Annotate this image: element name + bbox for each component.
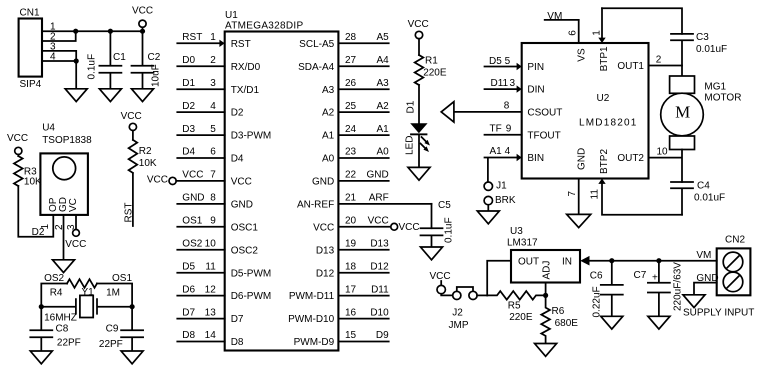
wire C4 to BTP2 pin 11 xyxy=(602,183,682,215)
svg-text:SDA-A4: SDA-A4 xyxy=(298,62,335,73)
svg-text:18: 18 xyxy=(345,261,357,272)
U1 pin 25 (A2) xyxy=(322,101,389,119)
capacitor C1 0.1uF xyxy=(87,31,127,89)
arrowhead BTP1 xyxy=(598,38,605,43)
svg-text:+: + xyxy=(652,272,658,283)
U1 pin 13 (D7) xyxy=(177,307,244,325)
wire GND pin 7 xyxy=(578,179,580,215)
svg-text:TF: TF xyxy=(490,123,502,134)
svg-text:A5: A5 xyxy=(376,32,389,43)
svg-text:D1: D1 xyxy=(182,78,195,89)
svg-text:D3: D3 xyxy=(182,124,195,135)
svg-text:VCC: VCC xyxy=(408,19,429,30)
svg-text:U3: U3 xyxy=(510,226,523,237)
ground C6 xyxy=(601,316,623,329)
IC U2 LMD18201 xyxy=(522,43,649,179)
U1 pin 15 (PWM-D9) xyxy=(294,330,389,348)
capacitor C4 0.01uF xyxy=(671,181,725,215)
wire CN1 pin1 to VCC net xyxy=(42,30,143,32)
capacitor C9 22PF xyxy=(99,324,143,351)
wire CN2 GND to ground xyxy=(694,283,717,295)
svg-text:RX/D0: RX/D0 xyxy=(231,62,261,73)
svg-text:D7: D7 xyxy=(231,314,244,325)
svg-text:M: M xyxy=(675,103,690,122)
svg-text:VCC: VCC xyxy=(65,239,86,250)
svg-text:C4: C4 xyxy=(697,181,710,192)
svg-text:LM317: LM317 xyxy=(507,238,538,249)
node GND (CN2) xyxy=(696,273,718,284)
U1 pin 11 (D5-PWM) xyxy=(177,261,271,279)
U1 pin 21 (AN-REF) xyxy=(297,193,432,211)
svg-text:8: 8 xyxy=(210,193,216,204)
junction pin1/pin2 xyxy=(73,29,78,34)
U1 pin 1 (RST) xyxy=(177,32,250,50)
wire IN to CN2 (VM rail) xyxy=(589,260,717,262)
svg-text:GD: GD xyxy=(58,197,69,212)
wire OUT2 pin 10 xyxy=(649,150,683,183)
svg-text:0.1uF: 0.1uF xyxy=(87,54,98,80)
node VM (U2 VS) xyxy=(545,11,579,22)
U1 pin 7 (VCC) xyxy=(147,170,252,188)
node VM (CN2) xyxy=(696,250,711,261)
svg-text:VCC: VCC xyxy=(231,177,252,188)
svg-text:D5: D5 xyxy=(182,261,195,272)
svg-text:C1: C1 xyxy=(113,52,126,63)
svg-text:J1: J1 xyxy=(496,181,507,192)
ground C1 xyxy=(99,89,121,102)
junction crystal right xyxy=(130,304,135,309)
power VCC (R2 top) xyxy=(121,111,142,140)
svg-text:16: 16 xyxy=(345,307,357,318)
capacitor C6 0.22uF xyxy=(590,261,623,318)
svg-text:7: 7 xyxy=(210,170,216,181)
svg-text:7: 7 xyxy=(567,191,578,197)
svg-text:GND: GND xyxy=(231,200,253,211)
svg-text:U1: U1 xyxy=(225,10,238,21)
svg-text:VCC: VCC xyxy=(313,222,334,233)
svg-text:0.22uF: 0.22uF xyxy=(591,286,602,317)
wire BTP1 top to C3 xyxy=(602,8,682,34)
resistor R4 1M xyxy=(50,279,120,299)
svg-text:D13: D13 xyxy=(316,245,335,256)
node D5 (U2 pin 5) xyxy=(489,56,511,67)
U1 pin 18 (D12) xyxy=(316,261,389,279)
U1 pin 27 (SDA-A4) xyxy=(298,55,389,73)
wire BTP1 pin 1 riser xyxy=(601,8,603,38)
wire CN1 pin4 to ground xyxy=(42,61,76,89)
svg-text:8: 8 xyxy=(504,101,510,112)
ground C9 xyxy=(121,351,143,364)
ground U4 xyxy=(53,260,75,273)
svg-text:R4: R4 xyxy=(50,288,63,299)
svg-text:D8: D8 xyxy=(182,330,195,341)
svg-text:25: 25 xyxy=(345,101,357,112)
ground D1 xyxy=(408,167,430,180)
svg-text:C2: C2 xyxy=(148,52,161,63)
svg-text:RST: RST xyxy=(124,203,135,223)
svg-text:R1: R1 xyxy=(425,56,438,67)
svg-text:OS2: OS2 xyxy=(182,239,202,250)
svg-text:VC: VC xyxy=(68,198,79,212)
svg-text:PIN: PIN xyxy=(527,62,544,73)
svg-text:TX/D1: TX/D1 xyxy=(231,85,260,96)
svg-text:OS2: OS2 xyxy=(44,273,64,284)
wire R2 to RST net xyxy=(132,173,134,226)
svg-text:VCC: VCC xyxy=(132,6,153,17)
svg-text:GND: GND xyxy=(312,177,334,188)
svg-text:0.01uF: 0.01uF xyxy=(694,193,725,204)
svg-text:PWM-D11: PWM-D11 xyxy=(289,291,335,302)
U1 pin 23 (A0) xyxy=(322,147,389,165)
svg-text:A2: A2 xyxy=(322,108,335,119)
svg-text:1: 1 xyxy=(210,32,216,43)
regulator U3 LM317 xyxy=(507,226,580,283)
svg-text:RST: RST xyxy=(182,32,202,43)
resistor R3 10K xyxy=(14,156,42,187)
svg-text:0.01uF: 0.01uF xyxy=(696,44,727,55)
svg-text:D0: D0 xyxy=(182,55,195,66)
svg-text:OUT2: OUT2 xyxy=(617,153,644,164)
svg-text:A2: A2 xyxy=(376,101,389,112)
U1 pin 22 (GND) xyxy=(312,170,389,188)
svg-text:GND: GND xyxy=(182,193,204,204)
svg-text:D11: D11 xyxy=(491,78,509,89)
svg-text:AN-REF: AN-REF xyxy=(297,200,334,211)
IC U1 ATMEGA328DIP xyxy=(225,10,339,351)
svg-text:15: 15 xyxy=(345,330,357,341)
svg-text:220E: 220E xyxy=(423,68,447,79)
svg-text:D13: D13 xyxy=(370,239,389,250)
svg-text:R2: R2 xyxy=(139,146,152,157)
junction C6 tap xyxy=(609,258,614,263)
svg-text:BTP1: BTP1 xyxy=(599,46,610,71)
wire CN1 pin3 xyxy=(42,51,76,61)
arrowhead BTP2 xyxy=(598,179,605,184)
svg-text:VCC: VCC xyxy=(399,222,420,233)
svg-text:ARF: ARF xyxy=(369,193,389,204)
svg-text:5: 5 xyxy=(210,124,216,135)
svg-text:OSC1: OSC1 xyxy=(231,222,259,233)
svg-text:6: 6 xyxy=(210,147,216,158)
U1 pin 2 (RX/D0) xyxy=(177,55,260,73)
connector CN2 xyxy=(717,235,751,296)
wire D5 to PIN xyxy=(485,66,517,68)
svg-text:OS1: OS1 xyxy=(182,216,202,227)
wire CN1 pin2 riser xyxy=(42,31,76,41)
svg-text:CSOUT: CSOUT xyxy=(527,108,562,119)
svg-text:10K: 10K xyxy=(139,158,157,169)
junction pin3/pin4 xyxy=(74,58,79,63)
svg-text:21: 21 xyxy=(345,193,357,204)
svg-text:GND: GND xyxy=(576,148,587,170)
wire TF to TFOUT xyxy=(485,134,522,136)
svg-text:TFOUT: TFOUT xyxy=(527,130,560,141)
svg-text:6: 6 xyxy=(567,30,578,36)
svg-text:1: 1 xyxy=(40,224,51,230)
svg-text:D5-PWM: D5-PWM xyxy=(231,268,272,279)
svg-text:RST: RST xyxy=(231,39,251,50)
svg-text:4: 4 xyxy=(505,146,511,157)
svg-text:2: 2 xyxy=(656,55,662,66)
resistor R1 220E xyxy=(415,55,447,85)
capacitor C2 10uF xyxy=(132,31,162,89)
svg-text:VCC: VCC xyxy=(121,111,142,122)
svg-text:26: 26 xyxy=(345,78,357,89)
U1 pin 10 (OSC2) xyxy=(177,239,258,257)
svg-text:1M: 1M xyxy=(106,288,120,299)
svg-text:GND: GND xyxy=(366,170,388,181)
ground CN2 xyxy=(683,295,705,308)
wire R3 to TSOP pin1 (net D2) xyxy=(18,186,53,237)
svg-text:A0: A0 xyxy=(322,154,335,165)
node TF (U2 pin 9) xyxy=(490,123,512,134)
junction crystal left xyxy=(39,304,44,309)
svg-text:OUT: OUT xyxy=(518,256,539,267)
svg-text:PWM-D10: PWM-D10 xyxy=(288,314,335,325)
capacitor C3 0.01uF xyxy=(671,32,727,66)
svg-text:220uF/63V: 220uF/63V xyxy=(672,262,683,311)
power VCC (U4 pin3) xyxy=(65,215,86,250)
svg-text:D3-PWM: D3-PWM xyxy=(231,131,272,142)
svg-text:D2: D2 xyxy=(231,108,244,119)
svg-text:D2: D2 xyxy=(182,101,195,112)
wire J1 to ground xyxy=(487,205,489,211)
svg-text:VCC: VCC xyxy=(7,133,28,144)
svg-text:C8: C8 xyxy=(56,324,69,335)
svg-text:12: 12 xyxy=(205,284,217,295)
svg-text:SUPPLY INPUT: SUPPLY INPUT xyxy=(683,308,754,319)
arrowhead PIN input xyxy=(517,63,522,70)
svg-text:BRK: BRK xyxy=(495,195,516,206)
arrowhead IN input xyxy=(580,256,589,266)
svg-text:11: 11 xyxy=(205,261,216,272)
svg-text:2: 2 xyxy=(210,55,216,66)
svg-text:22PF: 22PF xyxy=(99,339,123,350)
node D11 (U2 pin 3) xyxy=(491,78,516,89)
svg-text:MOTOR: MOTOR xyxy=(704,92,741,103)
resistor R2 10K xyxy=(129,140,157,173)
svg-text:23: 23 xyxy=(345,147,357,158)
svg-text:22: 22 xyxy=(345,170,357,181)
svg-text:BIN: BIN xyxy=(527,153,544,164)
ground C5 xyxy=(421,247,443,260)
ground CN1 xyxy=(65,89,87,102)
svg-text:D7: D7 xyxy=(182,307,195,318)
svg-text:0.1uF: 0.1uF xyxy=(444,217,455,243)
svg-text:C6: C6 xyxy=(590,270,603,281)
svg-text:D6: D6 xyxy=(182,284,195,295)
svg-text:D4: D4 xyxy=(182,147,195,158)
wire crystal top right xyxy=(97,284,132,331)
arrowhead BIN input xyxy=(517,154,522,161)
svg-text:10: 10 xyxy=(205,239,217,250)
U1 pin 24 (A1) xyxy=(322,124,389,142)
svg-text:A1: A1 xyxy=(376,124,389,135)
svg-text:J2: J2 xyxy=(452,308,463,319)
svg-text:24: 24 xyxy=(345,124,357,135)
jumper J2 JMP xyxy=(441,287,477,331)
svg-text:3: 3 xyxy=(510,78,516,89)
svg-text:VCC: VCC xyxy=(182,170,203,181)
wire ARF to C5 xyxy=(431,204,433,228)
svg-text:5: 5 xyxy=(505,56,511,67)
svg-text:A4: A4 xyxy=(376,55,389,66)
wire U3 OUT to J2/R5 xyxy=(487,261,511,296)
svg-text:16MHZ: 16MHZ xyxy=(44,313,77,324)
ground C8 xyxy=(30,351,52,364)
wire A1 to BIN and J1 xyxy=(485,158,517,183)
svg-text:C9: C9 xyxy=(106,324,119,335)
U1 pin 20 (VCC) xyxy=(313,216,391,234)
ground J1 xyxy=(477,211,499,224)
connector CN1 xyxy=(19,8,56,90)
svg-text:OUT1: OUT1 xyxy=(617,61,644,72)
IR receiver U4 TSOP1838 xyxy=(40,123,92,215)
svg-text:A3: A3 xyxy=(376,78,389,89)
svg-text:22PF: 22PF xyxy=(57,337,81,348)
svg-text:D8: D8 xyxy=(231,337,244,348)
svg-text:JMP: JMP xyxy=(449,320,469,331)
U1 pin 28 (SCL-A5) xyxy=(299,32,389,50)
svg-text:DIN: DIN xyxy=(527,85,544,96)
wire ADJ riser xyxy=(545,283,547,296)
wire CSOUT output xyxy=(454,111,522,113)
node A1 (U2 pin 4) xyxy=(490,146,511,157)
svg-text:TSOP1838: TSOP1838 xyxy=(42,135,92,146)
svg-text:680E: 680E xyxy=(555,318,579,329)
svg-text:U2: U2 xyxy=(597,93,610,104)
svg-text:A1: A1 xyxy=(322,131,335,142)
svg-text:28: 28 xyxy=(345,32,357,43)
junction C7 tap xyxy=(656,258,661,263)
svg-text:CN1: CN1 xyxy=(20,8,40,19)
capacitor C5 0.1uF xyxy=(421,200,455,247)
U1 pin 17 (PWM-D11) xyxy=(289,284,389,302)
U1 pin 5 (D3-PWM) xyxy=(177,124,271,142)
svg-text:19: 19 xyxy=(345,239,357,250)
svg-text:D11: D11 xyxy=(371,284,389,295)
power VCC (U1 pin 20 terminal) xyxy=(391,222,420,233)
svg-text:C5: C5 xyxy=(438,200,451,211)
wire U4 pin2 to ground xyxy=(63,215,65,260)
svg-text:VCC: VCC xyxy=(147,175,168,186)
svg-text:220E: 220E xyxy=(509,312,533,323)
jumper J1 BRK xyxy=(484,181,516,206)
svg-text:IN: IN xyxy=(562,256,572,267)
power VCC (top left) xyxy=(132,6,153,32)
svg-text:PWM-D9: PWM-D9 xyxy=(294,337,335,348)
U1 pin 26 (A3) xyxy=(322,78,389,96)
wire VM to VS pin 6 xyxy=(578,20,580,43)
U1 pin 6 (D4) xyxy=(177,147,244,165)
U1 pin 3 (TX/D1) xyxy=(177,78,259,96)
svg-text:Y1: Y1 xyxy=(82,287,95,298)
svg-text:27: 27 xyxy=(345,55,357,66)
svg-text:10uF: 10uF xyxy=(151,64,162,87)
arrowhead DIN input xyxy=(517,85,522,92)
U1 pin 4 (D2) xyxy=(177,101,244,119)
power VCC (J2) xyxy=(430,271,451,294)
ground C7 xyxy=(648,316,670,329)
svg-text:VCC: VCC xyxy=(368,216,389,227)
svg-text:OS1: OS1 xyxy=(112,273,132,284)
capacitor C8 22PF xyxy=(30,324,81,351)
svg-text:D4: D4 xyxy=(231,154,244,165)
wire R1 to D1 xyxy=(418,85,420,123)
svg-text:D5: D5 xyxy=(489,56,502,67)
resistor R5 220E xyxy=(487,291,545,323)
power VCC (R3 top) xyxy=(7,133,28,156)
motor MG1 xyxy=(661,76,742,150)
svg-text:10: 10 xyxy=(657,147,669,158)
svg-text:D12: D12 xyxy=(370,261,389,272)
svg-text:A1: A1 xyxy=(490,146,503,157)
svg-text:D10: D10 xyxy=(370,307,389,318)
svg-text:14: 14 xyxy=(205,330,217,341)
svg-text:SCL-A5: SCL-A5 xyxy=(299,39,334,50)
U1 pin 16 (PWM-D10) xyxy=(288,307,389,325)
svg-text:20: 20 xyxy=(345,216,357,227)
svg-text:A0: A0 xyxy=(376,147,389,158)
wire D1 to ground xyxy=(418,135,420,167)
arrow CSOUT (off-page, open) xyxy=(441,102,454,122)
svg-text:A3: A3 xyxy=(322,85,335,96)
svg-text:9: 9 xyxy=(210,216,216,227)
U1 pin 14 (D8) xyxy=(177,330,244,348)
svg-text:SIP4: SIP4 xyxy=(20,79,42,90)
svg-text:ADJ: ADJ xyxy=(542,261,553,280)
U1 pin 9 (OSC1) xyxy=(177,216,258,234)
svg-text:BTP2: BTP2 xyxy=(599,149,610,174)
junction C2/VCC tap xyxy=(140,29,145,34)
U1 pin 8 (GND) xyxy=(177,193,253,211)
svg-text:CN2: CN2 xyxy=(725,235,745,246)
svg-text:R6: R6 xyxy=(552,306,565,317)
svg-text:ATMEGA328DIP: ATMEGA328DIP xyxy=(225,21,303,32)
svg-text:OSC2: OSC2 xyxy=(231,245,259,256)
ground U2 xyxy=(567,214,591,227)
svg-text:VM: VM xyxy=(696,250,711,261)
svg-text:D1: D1 xyxy=(405,100,416,113)
svg-text:1: 1 xyxy=(592,30,603,36)
svg-text:MG1: MG1 xyxy=(704,81,726,92)
wire D11 to DIN xyxy=(485,88,517,90)
svg-text:D9: D9 xyxy=(376,330,389,341)
svg-text:10K: 10K xyxy=(24,176,42,187)
svg-text:VCC: VCC xyxy=(430,271,451,282)
svg-text:D12: D12 xyxy=(316,268,335,279)
power VCC (R1 top) xyxy=(408,19,429,55)
svg-text:VS: VS xyxy=(576,48,587,62)
ground R6 xyxy=(535,344,557,357)
wire OUT1 pin 2 xyxy=(649,66,683,77)
junction ADJ/R5/R6 xyxy=(543,293,548,298)
crystal Y1 16MHZ xyxy=(41,287,132,324)
LED D1 xyxy=(404,100,430,155)
svg-text:LMD18201: LMD18201 xyxy=(579,118,638,129)
svg-text:C3: C3 xyxy=(696,32,709,43)
svg-text:C7: C7 xyxy=(634,270,647,281)
svg-text:U4: U4 xyxy=(42,123,55,134)
wire J2 to R5 xyxy=(477,294,487,296)
svg-text:11: 11 xyxy=(590,189,601,200)
wire crystal top left xyxy=(41,284,67,331)
junction C1 tap xyxy=(108,29,113,34)
svg-text:R5: R5 xyxy=(508,300,521,311)
svg-text:LED: LED xyxy=(404,136,415,155)
svg-text:4: 4 xyxy=(210,101,216,112)
U1 pin 19 (D13) xyxy=(316,239,389,257)
